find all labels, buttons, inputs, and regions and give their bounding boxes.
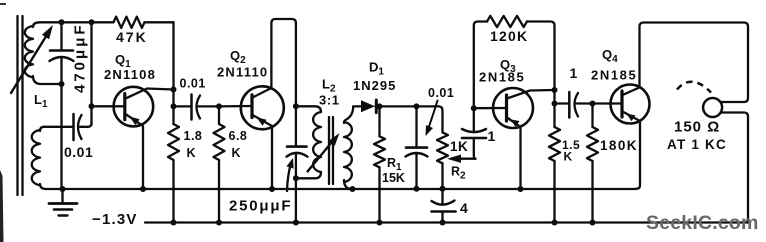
inductor L1 upper winding — [33, 22, 40, 27]
wire Q1 base column — [90, 22, 92, 125]
svg-text:4: 4 — [460, 200, 468, 216]
svg-text:1.8: 1.8 — [184, 129, 203, 143]
ground — [61, 189, 63, 204]
svg-text:1: 1 — [488, 128, 496, 144]
svg-text:2N1108: 2N1108 — [104, 67, 156, 82]
wire Q2 collector node to L2 primary — [296, 106, 321, 112]
capacitor 0.01 (antenna coupling) — [44, 126, 74, 128]
wire tank bottom down to ground node — [60, 84, 62, 189]
junction dot Q1 base node — [89, 103, 95, 109]
wire L2 secondary to diode — [353, 105, 362, 107]
svg-text:SeekIC.com: SeekIC.com — [646, 212, 759, 234]
wire earphone lower lead — [721, 113, 749, 223]
wire 47K down to Q1 collector node — [172, 22, 174, 124]
wire Q2 base lead — [219, 105, 252, 108]
svg-text:2N185: 2N185 — [591, 68, 637, 83]
wire Q2 emitter — [253, 115, 273, 189]
svg-text:150 Ω: 150 Ω — [674, 119, 720, 136]
wire Q3 base lead — [474, 107, 507, 109]
junction dot top rail — [89, 19, 95, 25]
svg-text:2N185: 2N185 — [479, 70, 525, 85]
junction dot Q1 collector node lower — [171, 103, 177, 109]
wire Q4 base lead — [593, 102, 623, 104]
transistor Q3 — [493, 88, 533, 128]
svg-text:15K: 15K — [382, 171, 405, 185]
wire Q4 collector loop — [623, 23, 749, 103]
pointer arrow from 0.01 label — [429, 101, 438, 129]
junction dot tank top left — [59, 19, 65, 25]
resistor R1 15K — [378, 106, 380, 136]
junction dot Q1 collector node — [171, 87, 177, 93]
svg-text:−1.3V: −1.3V — [92, 211, 138, 228]
junction dot Q3 collector node — [552, 87, 558, 93]
arrow of 250uuF trimmer — [287, 164, 291, 192]
tuning arrow of L1 — [11, 32, 49, 94]
transformer L2 primary winding — [313, 112, 321, 172]
svg-text:K: K — [232, 146, 242, 160]
resistor 120K — [487, 16, 527, 27]
resistor 1.5K — [549, 127, 560, 161]
junction dot Q3 base node — [471, 105, 477, 111]
svg-text:0.01: 0.01 — [428, 86, 454, 100]
junction dot 6.8K node — [216, 103, 222, 109]
wire top of tank to rail — [40, 21, 62, 23]
transformer L2 secondary winding — [344, 106, 353, 123]
resistor 47K — [114, 17, 145, 28]
wire R2 wiper up to 1uF — [474, 138, 476, 159]
svg-text:2N1110: 2N1110 — [217, 65, 268, 80]
junction dot L2 secondary at ground rail — [350, 186, 356, 192]
capacitor 0.01 (interstage) — [174, 105, 192, 107]
svg-text:180K: 180K — [600, 138, 638, 153]
resistor 6.8K — [218, 106, 220, 124]
junction dot 0.01 bypass top — [414, 103, 420, 109]
svg-text:1K: 1K — [450, 139, 468, 154]
junction dot Q3 emitter at ground rail — [518, 186, 524, 192]
svg-text:K: K — [564, 150, 573, 164]
transformer L2 core — [328, 117, 330, 184]
wire 120K to Q3 collector node — [527, 22, 555, 128]
svg-text:K: K — [187, 146, 197, 160]
resistor 1.8K — [172, 123, 174, 125]
junction dot R1 top — [377, 103, 383, 109]
wire Q3 collector — [507, 90, 555, 99]
junction dot ground node — [60, 186, 66, 192]
wire detector node — [376, 105, 439, 107]
scan artifact left edge — [0, 170, 4, 242]
wire 250uuF down to -1.3V rail — [295, 178, 297, 222]
earphone 150 ohm — [703, 98, 722, 117]
svg-text:47K: 47K — [116, 29, 148, 45]
potentiometer R2 1K — [437, 132, 448, 163]
junction dot Q1 emitter at ground rail — [140, 186, 146, 192]
wire Q1 base lead — [92, 105, 125, 107]
capacitor 250uuF — [295, 106, 297, 146]
svg-text:470μμF: 470μμF — [72, 22, 89, 93]
junction dot Q2 emitter at ground rail — [269, 186, 275, 192]
svg-text:6.8: 6.8 — [229, 129, 248, 143]
wire Q3 base node up to 120K — [474, 22, 487, 109]
wire Q2 collector loop — [253, 19, 296, 106]
wiper arrow of R2 — [458, 158, 476, 160]
junction dot 0.01 bypass at ground rail — [414, 186, 420, 192]
svg-text:120K: 120K — [490, 28, 528, 44]
resistor 180K — [591, 104, 593, 128]
wire L2 primary bottom — [296, 172, 321, 178]
junction dot 1.5K at -1.3V rail — [552, 220, 558, 226]
-1.3V supply rail — [145, 221, 748, 223]
ground rail — [46, 188, 636, 190]
junction dot Q4 base node — [590, 101, 596, 107]
capacitor 1uF (to Q3 base) — [462, 137, 486, 140]
junction dot 4uF at -1.3V rail — [440, 220, 446, 226]
capacitor 1uF (to Q4 base) — [555, 102, 570, 104]
capacitor 0.01 (bypass) — [415, 106, 417, 147]
junction dot 6.8K at -1.3V rail — [216, 220, 222, 226]
svg-text:0.01: 0.01 — [64, 144, 93, 160]
wire Q1 emitter — [126, 114, 144, 189]
svg-text:AT 1 KC: AT 1 KC — [667, 137, 727, 152]
dashed headband arc — [677, 82, 711, 93]
junction dot L2 primary bottom — [293, 175, 299, 181]
junction dot 180K at -1.3V rail — [590, 220, 596, 226]
junction dot at -1.3V rail below 250uuF — [293, 220, 299, 226]
junction dot tank bottom — [59, 81, 65, 87]
wire detector node corner down to R2 — [439, 106, 443, 132]
junction dot 1.8K at -1.3V rail — [171, 220, 177, 226]
svg-text:1N295: 1N295 — [353, 78, 396, 93]
wire Q1 collector — [126, 89, 174, 99]
capacitor 4uF — [441, 189, 443, 204]
svg-text:250μμF: 250μμF — [229, 198, 292, 215]
junction dot R1 at -1.3V rail — [377, 220, 383, 226]
junction dot 1.5K node — [552, 101, 558, 107]
wire Q4 emitter — [623, 112, 641, 189]
junction dot Q2 collector node — [293, 103, 299, 109]
junction dot R2 at ground rail — [440, 186, 446, 192]
svg-text:1: 1 — [570, 65, 578, 81]
transistor Q1 — [114, 87, 154, 127]
wire Q3 emitter — [507, 118, 521, 190]
transistor Q2 — [241, 86, 284, 129]
inductor L1 lower winding — [40, 127, 44, 131]
svg-text:3:1: 3:1 — [319, 93, 340, 108]
diode D1 — [361, 100, 375, 112]
svg-text:0.01: 0.01 — [180, 77, 206, 91]
transistor Q4 — [611, 85, 650, 124]
tuning arrow of L2 — [308, 140, 335, 172]
wire top rail — [62, 21, 114, 23]
capacitor 470uuF — [60, 22, 62, 50]
antenna core bars of L1 — [16, 16, 18, 195]
